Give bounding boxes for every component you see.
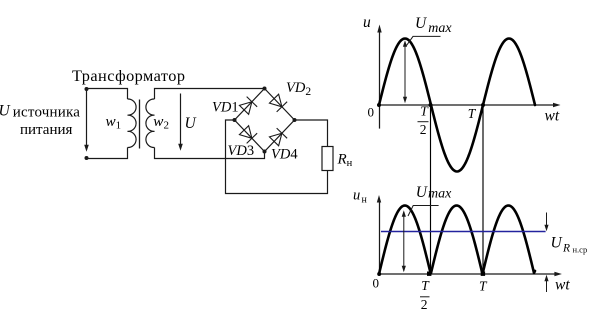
diode VD3 [239, 125, 257, 143]
svg-text:2: 2 [421, 297, 428, 312]
svg-text:u: u [363, 14, 371, 31]
svg-text:н: н [362, 195, 368, 206]
svg-text:н.ср: н.ср [573, 245, 588, 255]
svg-text:U: U [551, 235, 564, 252]
svg-text:U: U [415, 15, 428, 32]
diode VD2 [269, 94, 287, 112]
top plot sine curve u(wt) [379, 39, 535, 172]
wire primary top [87, 89, 128, 100]
diode VD1 [239, 97, 257, 115]
bottom plot rectified curve uн(wt) [379, 206, 535, 275]
bottom plot x-axis wt [379, 273, 556, 275]
resistor Rн (load) [322, 147, 333, 171]
wire secondary top to bridge [155, 89, 265, 100]
top plot x-axis wt [379, 104, 554, 106]
svg-text:0: 0 [368, 105, 375, 120]
svg-text:VD3: VD3 [228, 143, 255, 159]
svg-text:VD4: VD4 [271, 147, 298, 163]
node T/2 dot (top) [429, 103, 433, 107]
node source + terminal [85, 87, 89, 91]
source voltage arrow U источника [86, 89, 88, 146]
node origin dot (top) [377, 103, 381, 107]
node bridge top (AC) [263, 87, 267, 91]
node T/2 square dot (bottom) [427, 272, 431, 276]
node T dot (top) [481, 103, 485, 107]
svg-text:питания: питания [20, 122, 73, 138]
node bridge right (+) [293, 118, 297, 122]
node bridge bottom (AC) [263, 150, 267, 154]
bottom plot y-axis uн [379, 201, 381, 275]
svg-text:U: U [416, 184, 429, 201]
transformer primary winding w1 [128, 99, 137, 148]
reference line T to lower plot [482, 105, 484, 274]
svg-text:max: max [428, 187, 452, 202]
diode VD4 [269, 128, 287, 146]
wire bridge diamond edges [235, 89, 295, 152]
svg-text:2: 2 [420, 122, 427, 137]
svg-text:max: max [428, 21, 452, 36]
node source - terminal [85, 156, 89, 160]
node origin dot (bottom) [377, 272, 381, 276]
svg-text:wt: wt [555, 277, 570, 294]
Umax measuring arrow (top) [404, 42, 406, 102]
svg-text:0: 0 [373, 276, 380, 291]
top plot y-axis u [379, 30, 381, 129]
average level line U Rн.ср (blue) [381, 231, 546, 233]
wire primary bottom [87, 148, 128, 159]
svg-text:VD1: VD1 [212, 100, 239, 116]
Umax measuring arrow (bottom) [403, 212, 405, 271]
svg-text:R: R [562, 243, 570, 255]
svg-text:U: U [185, 115, 198, 132]
secondary voltage arrow U [180, 94, 182, 145]
wire bridge right to load [295, 120, 328, 147]
transformer secondary winding w2 [146, 99, 155, 148]
svg-text:u: u [353, 188, 360, 204]
dimension arrows for U Rн.ср [546, 213, 548, 226]
wire secondary bottom to bridge [155, 148, 265, 159]
svg-text:Трансформатор: Трансформатор [72, 66, 185, 85]
svg-text:wt: wt [545, 108, 560, 125]
wire bridge left to bottom rail [226, 120, 328, 194]
node T square dot (bottom) [481, 272, 485, 276]
transformer core [139, 100, 141, 149]
svg-text:источника: источника [13, 105, 80, 121]
reference line T/2 to lower plot [430, 105, 432, 274]
node bridge left (-) [233, 118, 237, 122]
